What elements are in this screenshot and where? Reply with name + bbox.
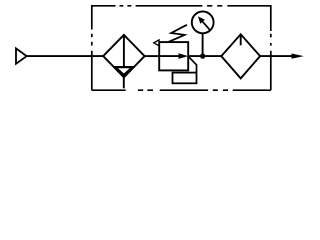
top edge <box>92 5 271 7</box>
regulator R1 spring <box>168 25 187 42</box>
wire filter to regulator <box>145 55 160 57</box>
pressure gauge G1 needle <box>198 16 210 30</box>
input port arrow P1 <box>16 48 27 63</box>
wire regulator to lubricator <box>188 55 221 57</box>
bottom edge <box>92 89 271 91</box>
regulator R1 flow path arrow <box>159 53 188 59</box>
regulator R1 body <box>159 42 188 70</box>
regulator R1 relief line <box>189 57 197 73</box>
filter F1 drain line <box>123 77 125 88</box>
filter F1 drain triangle <box>115 67 132 75</box>
pressure gauge G1 dial <box>192 12 214 34</box>
pressure gauge G1 stem wire <box>202 33 204 56</box>
lubricator L1 drip line <box>240 34 242 45</box>
wire lubricator to outlet <box>260 55 292 57</box>
right edge <box>270 5 272 90</box>
filter F1 diamond body <box>103 35 144 77</box>
output flow arrowhead <box>292 54 304 59</box>
filter F1 baffle line <box>123 35 125 67</box>
lubricator L1 diamond body <box>221 34 260 78</box>
left edge <box>91 5 93 90</box>
regulator R1 adjustment arrowhead <box>154 40 159 46</box>
enclosure boundary (phantom dash-dot box) <box>92 5 271 90</box>
regulator R1 vent box <box>173 73 197 84</box>
wire inlet to filter <box>27 55 104 57</box>
junction dot at gauge tap <box>200 53 205 58</box>
